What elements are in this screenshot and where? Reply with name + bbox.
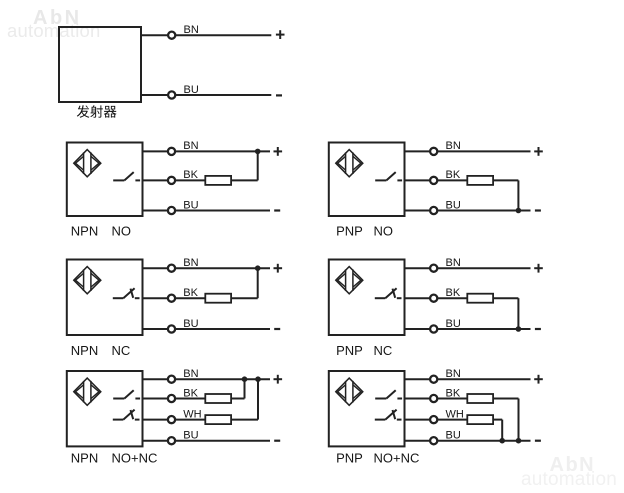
svg-text:BU: BU bbox=[446, 430, 461, 442]
svg-text:NPN: NPN bbox=[71, 224, 98, 239]
svg-text:BU: BU bbox=[183, 199, 198, 211]
svg-text:BK: BK bbox=[183, 387, 198, 399]
svg-text:BU: BU bbox=[184, 84, 199, 96]
svg-text:BN: BN bbox=[184, 24, 199, 36]
svg-text:NO: NO bbox=[112, 224, 132, 239]
svg-text:PNP: PNP bbox=[336, 450, 363, 465]
svg-text:NC: NC bbox=[374, 343, 393, 358]
svg-text:PNP: PNP bbox=[336, 224, 363, 239]
svg-text:BU: BU bbox=[183, 318, 198, 330]
svg-text:automation: automation bbox=[521, 469, 617, 490]
svg-text:NPN: NPN bbox=[71, 343, 98, 358]
svg-text:NPN: NPN bbox=[71, 450, 98, 465]
svg-text:WH: WH bbox=[446, 408, 464, 420]
svg-text:BN: BN bbox=[183, 257, 198, 269]
svg-text:BU: BU bbox=[183, 430, 198, 442]
svg-text:BN: BN bbox=[183, 368, 198, 380]
svg-text:WH: WH bbox=[183, 408, 201, 420]
svg-text:BU: BU bbox=[446, 199, 461, 211]
svg-text:BU: BU bbox=[446, 318, 461, 330]
svg-text:BN: BN bbox=[446, 140, 461, 152]
svg-text:NC: NC bbox=[112, 343, 131, 358]
svg-text:BK: BK bbox=[446, 287, 461, 299]
svg-text:BK: BK bbox=[446, 169, 461, 181]
svg-text:automation: automation bbox=[7, 20, 101, 41]
svg-text:NO+NC: NO+NC bbox=[112, 450, 158, 465]
svg-text:BN: BN bbox=[183, 140, 198, 152]
svg-text:PNP: PNP bbox=[336, 343, 363, 358]
svg-text:NO+NC: NO+NC bbox=[374, 450, 420, 465]
svg-text:NO: NO bbox=[374, 224, 394, 239]
svg-text:BK: BK bbox=[446, 387, 461, 399]
svg-text:BK: BK bbox=[183, 287, 198, 299]
svg-text:BK: BK bbox=[183, 169, 198, 181]
svg-text:BN: BN bbox=[446, 257, 461, 269]
svg-text:BN: BN bbox=[446, 368, 461, 380]
